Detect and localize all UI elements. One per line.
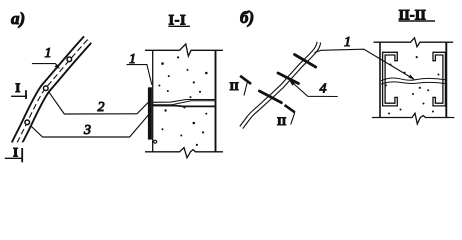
svg-text:1: 1 bbox=[45, 46, 52, 61]
svg-text:3: 3 bbox=[83, 123, 91, 138]
svg-text:а): а) bbox=[11, 9, 25, 28]
svg-text:1: 1 bbox=[344, 35, 351, 50]
svg-text:б): б) bbox=[240, 8, 254, 27]
svg-text:I: I bbox=[13, 144, 18, 159]
svg-text:4: 4 bbox=[320, 82, 327, 97]
svg-text:2: 2 bbox=[98, 100, 105, 115]
svg-text:I: I bbox=[15, 80, 20, 95]
svg-text:II: II bbox=[277, 114, 287, 128]
svg-text:II: II bbox=[230, 79, 240, 93]
